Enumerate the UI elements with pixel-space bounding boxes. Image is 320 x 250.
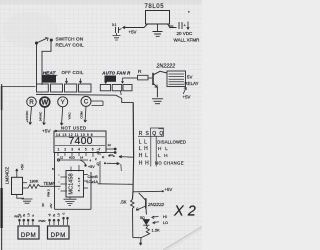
svg-text:Q: Q (97, 151, 100, 155)
svg-text:OFF COIL: OFF COIL (62, 70, 85, 75)
svg-text:1.5K: 1.5K (152, 228, 161, 233)
7400 right pin wires 12 13 (106, 148, 116, 154)
svg-text:Y/AC: Y/AC (68, 112, 72, 120)
svg-text:PIN 3: PIN 3 (47, 189, 51, 197)
svg-text:0.1: 0.1 (112, 23, 117, 27)
svg-text:SWITCH ON: SWITCH ON (56, 36, 84, 41)
wire +5V rail Q2 (133, 190, 163, 193)
svg-text:*: * (188, 10, 190, 15)
filled label box heat (42, 75, 56, 82)
svg-text:+5V: +5V (49, 203, 53, 208)
wire bottom joint and arrow (133, 238, 142, 246)
svg-text:+5V: +5V (88, 165, 95, 169)
svg-text:R: R (138, 69, 142, 75)
svg-text:IN: IN (169, 24, 173, 29)
svg-text:ComB: ComB (88, 175, 99, 179)
truth table R S Q Qbar (139, 131, 164, 137)
comparator output wire (98, 183, 134, 186)
wire stub at C terminal (92, 101, 104, 106)
thermostat terminals R W Y C (27, 96, 91, 107)
svg-text:Q Q: Q Q (152, 131, 164, 137)
IC U3 7400 (54, 131, 106, 153)
svg-text:.5K: .5K (120, 200, 127, 205)
ground 1458 (64, 198, 77, 206)
LED D1 (143, 220, 149, 227)
svg-text:H2O: H2O (69, 156, 76, 160)
svg-text:G: G (63, 213, 66, 215)
label HEAT (42, 70, 84, 83)
switch S1 lever (37, 38, 47, 43)
svg-text:24VAC: 24VAC (39, 111, 43, 121)
ground bypass (113, 33, 121, 40)
thermostat wires down with labels (29, 106, 87, 125)
op-amp U4 MC1458 (66, 171, 84, 198)
fan terminal blocks (100, 85, 132, 91)
svg-text:78L05: 78L05 (145, 4, 165, 10)
shield enclosure wire (55, 153, 101, 210)
1458 pin stubs (58, 165, 88, 191)
relay K1 coil (167, 71, 186, 87)
arrows HI LO (152, 216, 160, 224)
wire long vertical to Q-bar arrow (132, 102, 134, 157)
svg-text:NO CHANGE: NO CHANGE (155, 160, 184, 165)
wire from left scan edge (2, 86, 36, 88)
+5V to sensor (16, 169, 18, 178)
wire arrow into fan terminal 1 (105, 79, 107, 84)
wire row under 7400 (57, 159, 88, 166)
svg-text:2N2222: 2N2222 (147, 202, 165, 207)
wire Q-bar arrow from table (119, 156, 134, 159)
svg-text:IN: IN (53, 214, 56, 217)
svg-text:RELAY: RELAY (185, 81, 199, 86)
svg-text:W: W (41, 100, 48, 107)
svg-text:L H: L H (139, 146, 149, 152)
svg-text:HI: HI (163, 214, 167, 219)
label AUTO FAN (101, 71, 131, 82)
svg-text:5V: 5V (187, 74, 192, 79)
svg-text:AUTO FAN R: AUTO FAN R (101, 71, 131, 76)
+5V output wire (123, 24, 148, 29)
wire bus under terminals (36, 93, 116, 96)
svg-text:12: 12 (108, 143, 112, 147)
svg-text:12: 12 (60, 156, 64, 160)
ground Q1 emitter (152, 99, 163, 104)
svg-text:+5V: +5V (129, 30, 137, 35)
wire Q to driver (107, 162, 120, 164)
svg-text:Q: Q (97, 162, 100, 166)
filled label box auto fan (105, 76, 117, 82)
DPM2 pin arrows (48, 217, 68, 225)
wire box2 to bus (120, 91, 123, 95)
svg-text:DPM: DPM (21, 232, 36, 239)
7400 bottom pin stubs (58, 153, 100, 158)
svg-text:IN: IN (41, 204, 45, 207)
svg-text:LM34DZ: LM34DZ (5, 167, 10, 185)
svg-text:180K: 180K (30, 180, 39, 184)
switch contact dot (50, 39, 52, 41)
DPM meter 1 (18, 226, 39, 239)
svg-text:L H: L H (158, 153, 169, 158)
svg-text:+5V: +5V (21, 163, 25, 170)
svg-text:20 VDC: 20 VDC (177, 31, 194, 36)
DPM1 pin arrows (18, 219, 34, 225)
svg-text:R: R (29, 99, 34, 106)
transistor Q2 2N2222 (136, 193, 146, 215)
ground sensor (17, 195, 33, 204)
ground 78L05 (153, 24, 163, 36)
wire arrow into terminal 3 (65, 78, 67, 83)
svg-text:7400: 7400 (69, 135, 93, 147)
svg-text:2N2222: 2N2222 (156, 63, 176, 69)
bypass capacitor 0.1 (116, 27, 122, 33)
svg-text:LO≥1A: LO≥1A (87, 180, 99, 184)
svg-text:PWR: PWR (39, 219, 47, 223)
furnace heat terminal blocks (37, 78, 107, 92)
switch S1 wires (36, 43, 38, 85)
+5V pin 8 (84, 164, 86, 166)
svg-text:MC1458: MC1458 (69, 173, 75, 194)
svg-text:L L: L L (139, 139, 148, 145)
svg-text:14: 14 (80, 156, 84, 160)
wire bus bend down (116, 95, 133, 102)
switch pivot dot (35, 42, 37, 44)
label SWITCH ON RELAY COIL (56, 36, 84, 47)
svg-text:+5V: +5V (165, 187, 173, 192)
wire arrow into terminal 4 (79, 79, 81, 84)
svg-text:LO: LO (58, 213, 61, 216)
svg-text:+5V: +5V (42, 129, 51, 134)
DPM meter 2 (48, 226, 70, 239)
paper crease bottom right (166, 228, 202, 250)
svg-text:IN: IN (23, 214, 26, 217)
svg-text:C: C (84, 99, 89, 106)
svg-text:RELAY COIL: RELAY COIL (56, 43, 84, 48)
svg-text:H H: H H (139, 160, 150, 166)
svg-text:R S: R S (139, 131, 150, 137)
input wire and cap (168, 22, 190, 30)
paper background (0, 0, 202, 250)
svg-text:COM: COM (80, 111, 84, 119)
svg-text:6-5-18: 6-5-18 (77, 177, 81, 192)
svg-text:NOT USED: NOT USED (61, 126, 87, 131)
resistor R at Q1 base (122, 75, 153, 83)
svg-text:+5V: +5V (183, 95, 191, 100)
svg-text:G: G (32, 215, 35, 217)
svg-text:H L: H L (139, 153, 149, 159)
wire vertical A continues to .5K (132, 157, 133, 199)
svg-text:LO: LO (28, 213, 31, 216)
node Q outputs (108, 155, 110, 157)
svg-text:TEMP: TEMP (44, 181, 56, 186)
svg-text:WALL XFMR: WALL XFMR (174, 38, 201, 43)
svg-text:X 2: X 2 (173, 204, 196, 220)
svg-text:H L: H L (158, 146, 169, 151)
scan edge dark line left (1, 84, 3, 250)
svg-text:DPM: DPM (51, 232, 66, 239)
svg-text:LO: LO (163, 220, 168, 225)
svg-text:DISALLOWED: DISALLOWED (157, 140, 186, 145)
svg-text:+24VDC: +24VDC (25, 110, 29, 123)
transistor Q1 2N2222 (153, 71, 167, 97)
